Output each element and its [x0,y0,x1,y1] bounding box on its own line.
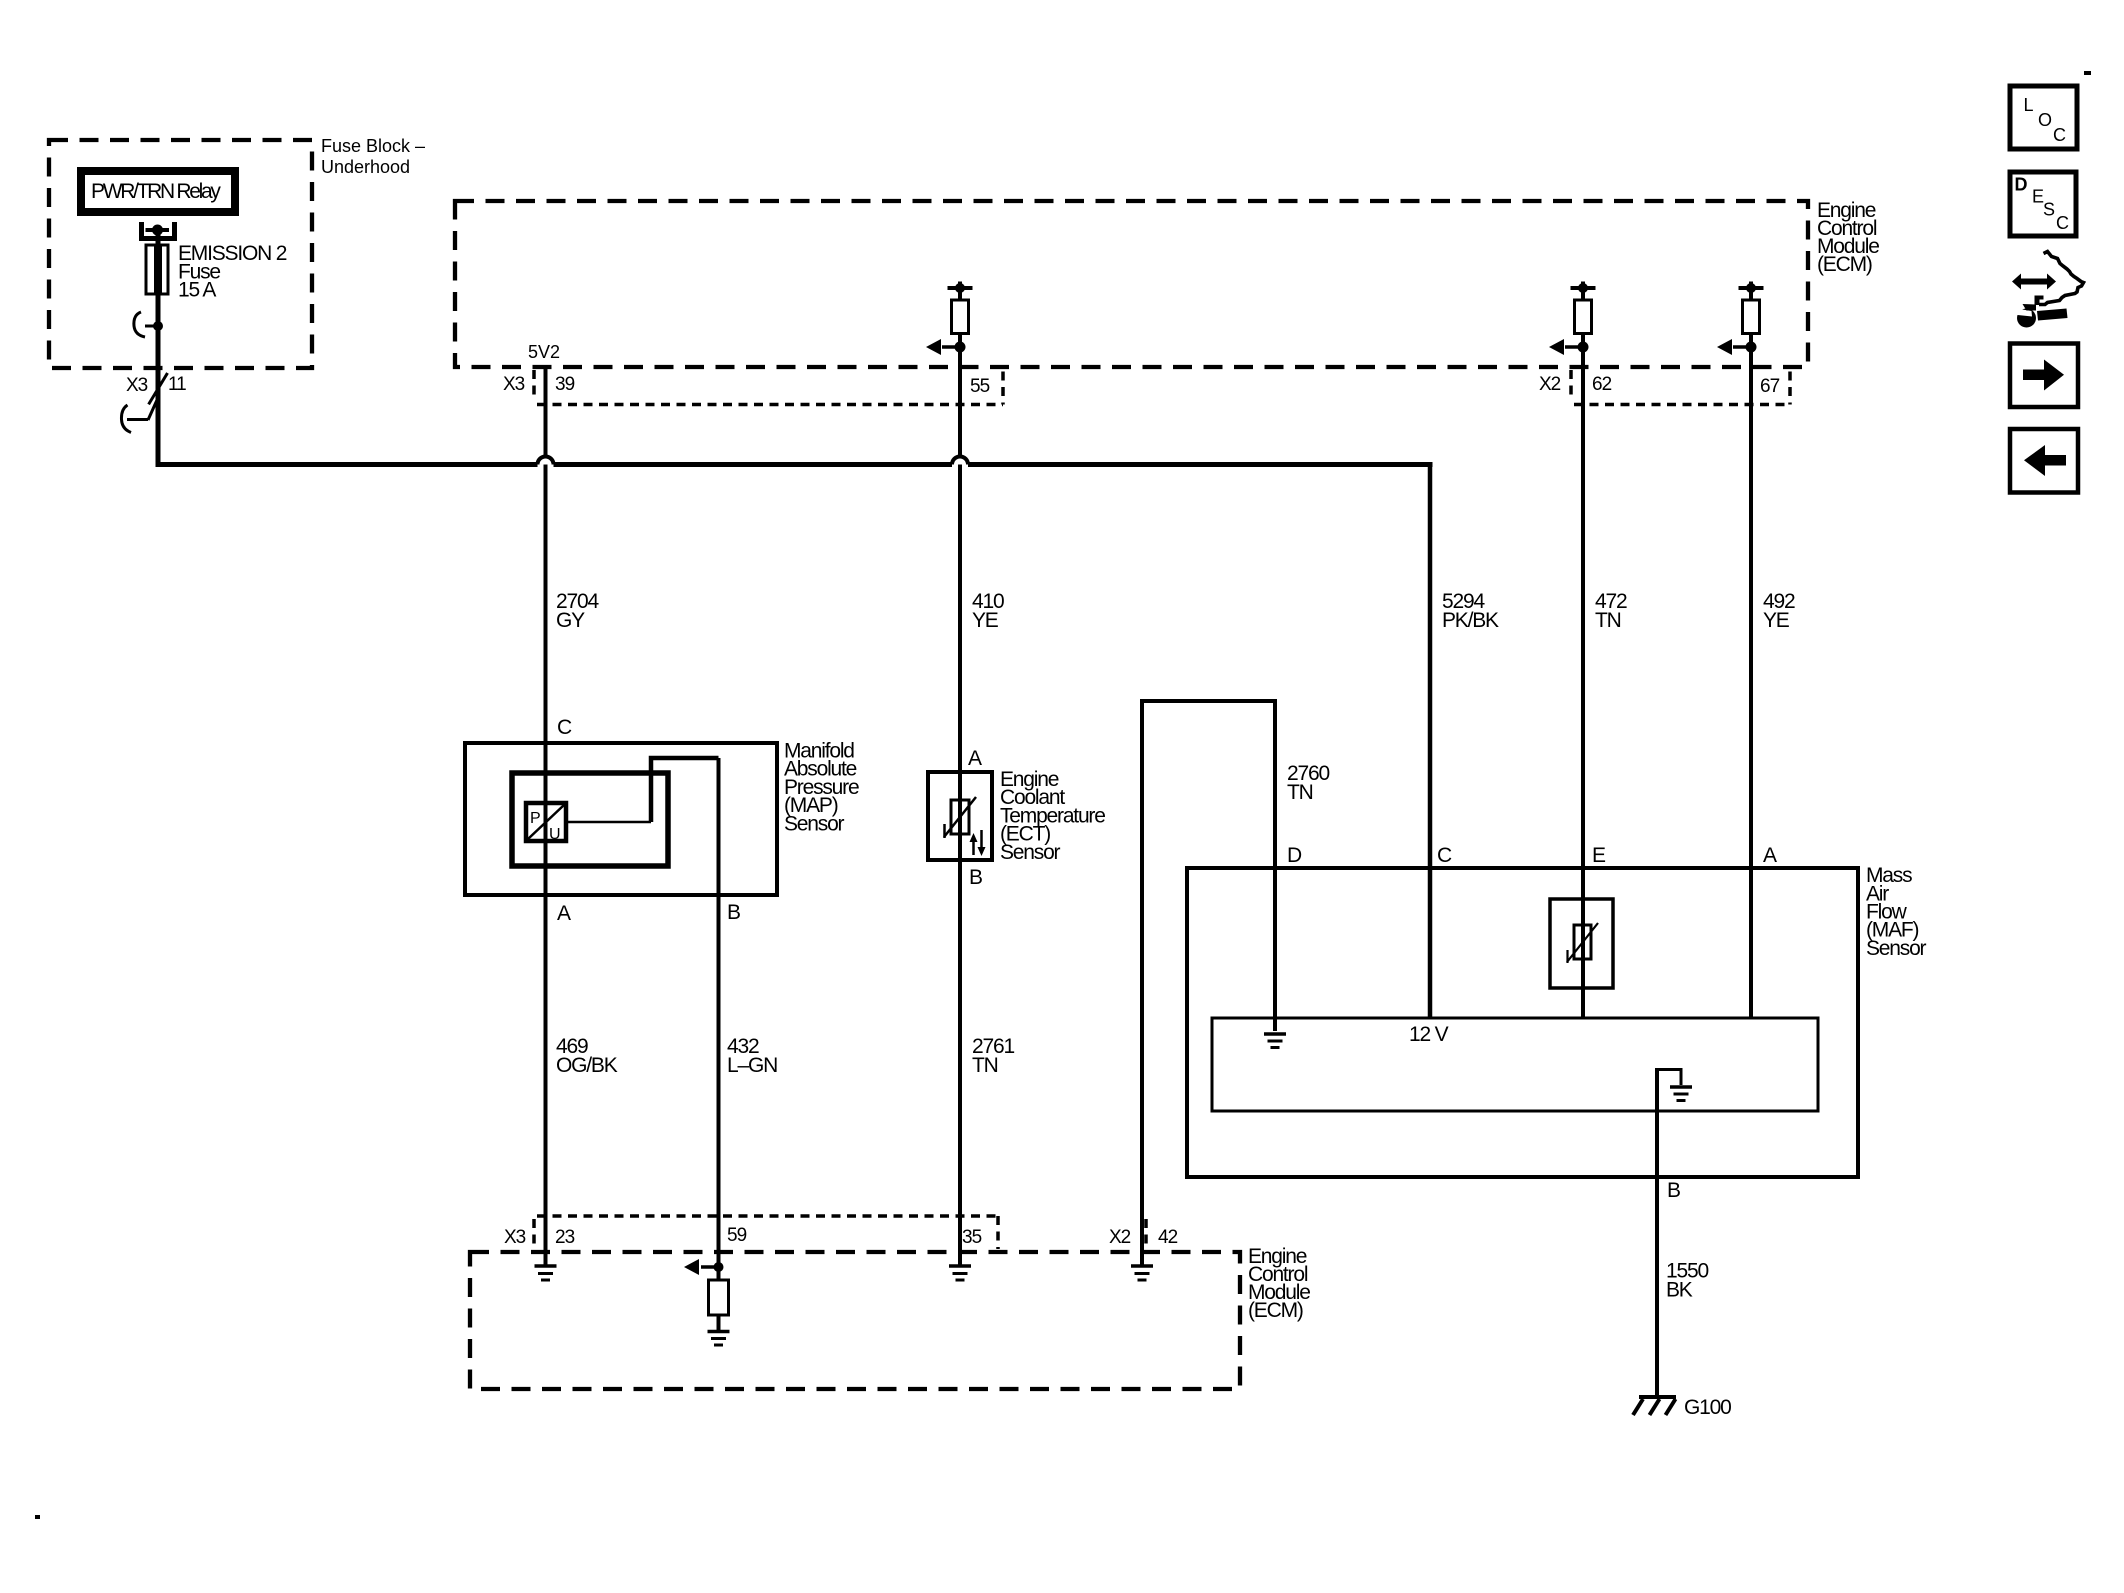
svg-text:X3: X3 [126,375,148,396]
resistor pull-up at pin 55 [926,282,973,356]
svg-text:67: 67 [1760,376,1780,397]
svg-text:O: O [2038,110,2052,130]
svg-text:Sensor: Sensor [1000,841,1061,864]
svg-text:TN: TN [972,1054,998,1077]
connector strip X2 top [1571,370,1790,405]
svg-text:Fuse Block –: Fuse Block – [321,136,425,156]
svg-text:42: 42 [1158,1227,1178,1248]
svg-text:D: D [1287,844,1302,867]
wire 2704 GY pin39 to MAP C [544,366,548,744]
connector strip X3 top [534,370,1003,405]
svg-text:(ECM): (ECM) [1248,1299,1303,1322]
MAP transducer P/U symbol [526,803,566,843]
label Manifold Absolute Pressure (MAP) Sensor [784,740,859,836]
svg-text:P: P [530,810,541,827]
ground G100 chassis [1633,1397,1676,1415]
svg-text:TN: TN [1595,609,1621,632]
svg-text:E: E [1592,844,1606,867]
stray mark bottom-left [35,1515,40,1519]
svg-text:X2: X2 [1539,374,1561,395]
wire ignition feed bus with hops [156,368,1433,465]
ECT sensor box [928,772,992,860]
sidebar DESC button [2010,172,2076,236]
svg-text:PWR/TRN Relay: PWR/TRN Relay [91,180,221,203]
wire 1550 BK MAF B to G100 [1655,1068,1659,1397]
wire 2761 TN ECT B to pin 35 [958,860,962,1266]
ground MAF internal at pin B net [1657,1070,1692,1101]
wire 469 OG/BK MAP A to pin 23 [544,895,548,1266]
svg-text:GY: GY [556,609,585,632]
svg-text:23: 23 [555,1227,575,1248]
MAP sensor box [465,743,777,895]
label 492 YE [1763,590,1795,632]
svg-text:B: B [969,866,982,889]
svg-text:55: 55 [970,376,990,397]
sidebar vehicle-tools icon [2012,252,2084,328]
svg-text:59: 59 [727,1225,747,1246]
MAF sensor box [1187,868,1858,1177]
sidebar LOC button [2010,86,2077,149]
sidebar forward arrow button [2010,344,2078,408]
svg-text:B: B [727,901,740,924]
wire 2760 TN pin42 to MAF D [1142,701,1275,1266]
svg-text:A: A [968,747,982,770]
relay output terminal bracket [142,222,175,239]
svg-text:15 A: 15 A [178,279,216,302]
svg-text:Underhood: Underhood [321,157,410,177]
label X3 11 [126,374,186,396]
label 469 OG/BK [556,1035,618,1077]
ECM top dashed box [455,201,1808,367]
wire MAP internal C to A [544,743,548,895]
wire fuse to splice [156,294,161,368]
label X3 23 59 35 [504,1225,982,1248]
label Engine Control Module (ECM) bottom [1248,1245,1310,1322]
wire MAP internal output [566,758,719,822]
svg-text:X2: X2 [1109,1227,1131,1248]
wire relay to fuse [156,230,161,245]
wire 432 L-GN MAP B to pin 59 [717,758,721,1263]
label 1550 BK [1666,1260,1708,1302]
label Engine Control Module (ECM) top [1817,199,1879,276]
connector strip X3 bottom [534,1216,998,1249]
svg-text:11: 11 [168,374,186,395]
svg-text:35: 35 [962,1227,982,1248]
svg-text:L–GN: L–GN [727,1054,777,1077]
ECT thermistor symbol [944,797,976,838]
resistor pull-up at pin 67 [1717,282,1764,356]
svg-text:C: C [2056,213,2069,233]
label 2761 TN [972,1035,1014,1077]
MAF thermistor box [1550,899,1613,988]
svg-text:X3: X3 [503,374,525,395]
resistor pull-up at pin 62 [1549,282,1596,356]
ground at pin 42 [1131,1266,1153,1280]
svg-text:U: U [549,826,561,843]
connector X2 42 divider [1144,1219,1148,1248]
label 432 L-GN [727,1035,777,1077]
wire ECT internal A to B [958,772,962,860]
svg-text:12 V: 12 V [1409,1023,1449,1046]
label X2 42 [1109,1227,1178,1248]
wire 492 YE pin67 to MAF A [1749,352,1753,1018]
svg-text:C: C [1437,844,1452,867]
svg-text:C: C [557,716,572,739]
label X3 39 55 [503,374,990,397]
ground at pin 35 [949,1266,971,1280]
ground MAF internal at pin D [1264,1034,1286,1048]
svg-text:D: D [2015,175,2028,195]
svg-text:5V2: 5V2 [528,342,560,362]
svg-text:X3: X3 [504,1227,526,1248]
svg-text:39: 39 [555,374,575,395]
svg-text:A: A [1763,844,1777,867]
svg-text:TN: TN [1287,781,1313,804]
connector X3 pin 11 [121,373,167,433]
internal resistor to ground at pin 59 [684,1259,730,1345]
svg-text:G100: G100 [1684,1396,1731,1419]
svg-text:OG/BK: OG/BK [556,1054,618,1077]
ground at pin 23 [535,1266,557,1280]
svg-text:S: S [2043,200,2055,220]
label Fuse Block - Underhood [321,136,425,177]
svg-text:B: B [1667,1179,1680,1202]
label 472 TN [1595,590,1627,632]
svg-text:(ECM): (ECM) [1817,253,1872,276]
sidebar tiny mark [2084,71,2091,75]
ECT bidirectional arrows [970,830,986,856]
label EMISSION 2 Fuse 15 A [178,242,287,302]
svg-text:YE: YE [1763,609,1790,632]
svg-text:C: C [2053,125,2066,145]
svg-text:PK/BK: PK/BK [1442,609,1499,632]
label Mass Air Flow (MAF) Sensor [1866,864,1927,960]
ECM bottom dashed box [470,1252,1240,1389]
label 410 YE [972,590,1004,632]
svg-text:YE: YE [972,609,999,632]
sidebar back arrow button [2010,429,2078,493]
svg-text:Sensor: Sensor [784,812,845,835]
svg-text:Sensor: Sensor [1866,937,1927,960]
fuse EMISSION 2 15 A [146,245,168,294]
label 5294 PK/BK [1442,590,1499,632]
svg-text:L: L [2024,95,2034,115]
splice junction in fuse block [134,312,163,337]
wire 410 YE pin55 to ECT A [958,352,962,772]
svg-text:62: 62 [1592,374,1612,395]
svg-text:A: A [557,902,571,925]
label 2760 TN [1287,762,1329,804]
wire 472 TN pin62 to MAF E [1581,352,1585,1018]
fuse block underhood dashed box [49,140,312,368]
svg-text:BK: BK [1666,1279,1693,1302]
relay K PWR/TRN Relay [81,171,235,212]
wire 5294 PK/BK bus to MAF C [1428,462,1433,1018]
label 2704 GY [556,590,599,632]
label Engine Coolant Temperature (ECT) Sensor [1000,768,1105,864]
label X2 62 67 [1539,374,1780,397]
